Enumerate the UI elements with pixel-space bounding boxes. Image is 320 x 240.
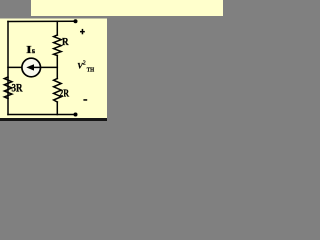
svg-text:TH: TH bbox=[87, 66, 95, 73]
svg-text:3R: 3R bbox=[12, 83, 24, 95]
svg-text:R: R bbox=[62, 36, 69, 48]
svg-text:I: I bbox=[26, 45, 32, 56]
svg-text:2R: 2R bbox=[59, 88, 69, 100]
svg-text:2: 2 bbox=[83, 60, 86, 66]
